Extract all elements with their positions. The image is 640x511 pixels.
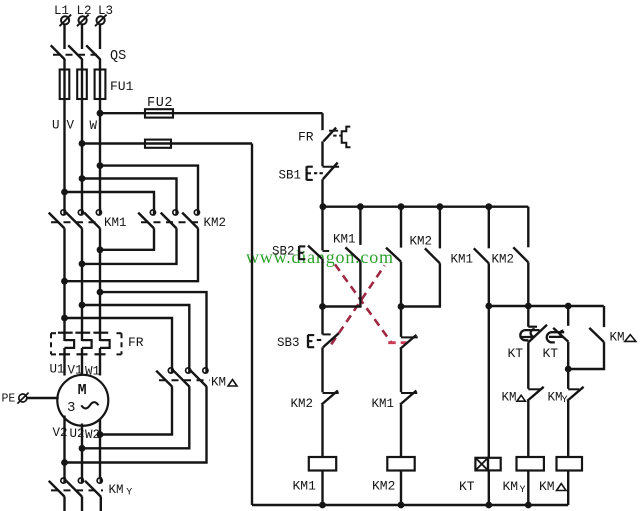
svg-text:M: M [78, 382, 87, 399]
svg-text:KM1: KM1 [451, 253, 474, 267]
svg-text:KM1: KM1 [372, 397, 395, 411]
svg-text:FR: FR [128, 335, 144, 350]
svg-text:3: 3 [67, 400, 75, 416]
svg-text:KM1: KM1 [333, 233, 356, 247]
svg-text:SB1: SB1 [279, 169, 302, 183]
svg-text:KT: KT [543, 346, 559, 361]
svg-text:U: U [52, 119, 60, 133]
svg-text:KM: KM [109, 483, 124, 497]
svg-text:KM2: KM2 [492, 253, 515, 267]
svg-text:Y: Y [562, 395, 568, 406]
svg-text:V2: V2 [53, 426, 68, 440]
svg-text:U2: U2 [70, 427, 85, 441]
svg-text:W2: W2 [85, 428, 100, 442]
svg-text:W: W [90, 119, 98, 133]
svg-text:KT: KT [508, 346, 524, 361]
svg-text:KM: KM [211, 376, 226, 390]
svg-text:KM1: KM1 [293, 479, 317, 494]
svg-text:FU1: FU1 [110, 79, 134, 94]
svg-text:SB2: SB2 [272, 245, 295, 259]
svg-text:FR: FR [298, 130, 314, 145]
svg-text:KM: KM [610, 331, 625, 345]
svg-text:KM: KM [503, 479, 519, 494]
svg-text:SB3: SB3 [277, 336, 300, 350]
svg-text:Y: Y [126, 488, 132, 499]
svg-text:KM2: KM2 [410, 235, 433, 249]
svg-text:Y: Y [520, 485, 526, 496]
svg-text:KM: KM [548, 391, 563, 405]
svg-text:KM2: KM2 [291, 397, 314, 411]
svg-text:KM: KM [502, 391, 517, 405]
svg-text:KM2: KM2 [204, 216, 227, 230]
svg-text:KM: KM [539, 479, 555, 494]
svg-text:KM2: KM2 [372, 479, 395, 494]
svg-text:PE: PE [2, 393, 16, 406]
svg-text:V: V [67, 119, 75, 133]
svg-text:KM1: KM1 [104, 216, 127, 230]
svg-text:FU2: FU2 [147, 96, 173, 111]
svg-text:KT: KT [459, 479, 475, 494]
svg-text:U1: U1 [50, 363, 65, 377]
svg-text:QS: QS [110, 49, 126, 64]
